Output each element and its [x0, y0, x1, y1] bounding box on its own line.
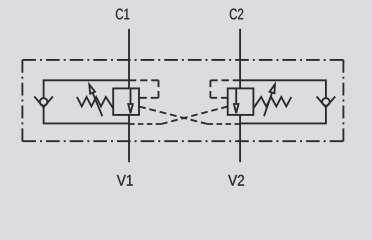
- wire C1 port line (top): [128, 29, 130, 89]
- wire right branch loop (check valve branch): [240, 80, 326, 123]
- flow arrow inside left valve: [130, 88, 132, 104]
- counterbalance valve body V1 (left box): [113, 88, 139, 115]
- cross pilot line from right valve to C1 (dashed): [161, 107, 228, 125]
- flow arrow inside right valve: [235, 88, 237, 104]
- adjustment arrow through spring S2: [264, 93, 272, 117]
- label V2: [228, 175, 244, 186]
- wire left branch loop (check valve branch): [44, 80, 129, 123]
- label V1: [117, 175, 133, 186]
- check valve CV1 seat: [34, 97, 53, 108]
- wire C2-V2 line (below valve): [239, 115, 241, 162]
- cross pilot line from left valve to C2 (dashed): [139, 107, 208, 125]
- spring S2 (right, adjustable): [253, 97, 291, 108]
- check valve CV1 circle: [40, 98, 48, 106]
- label C1: [116, 9, 129, 20]
- spring S1 (left, adjustable): [77, 97, 113, 108]
- pilot line loop right valve (dashed): [210, 79, 240, 81]
- wire C1-V1 line (below valve): [128, 115, 130, 162]
- label C2: [230, 9, 243, 20]
- wire C2 port line (top): [239, 29, 241, 89]
- pilot line loop left valve (dashed): [129, 79, 159, 81]
- adjustment arrow through spring S1: [93, 93, 103, 117]
- valve assembly boundary (dash-dot enclosure): [22, 60, 343, 141]
- check valve CV2 circle: [322, 98, 330, 106]
- check valve CV2 seat: [317, 97, 336, 108]
- counterbalance valve body V2 (right box): [228, 88, 254, 115]
